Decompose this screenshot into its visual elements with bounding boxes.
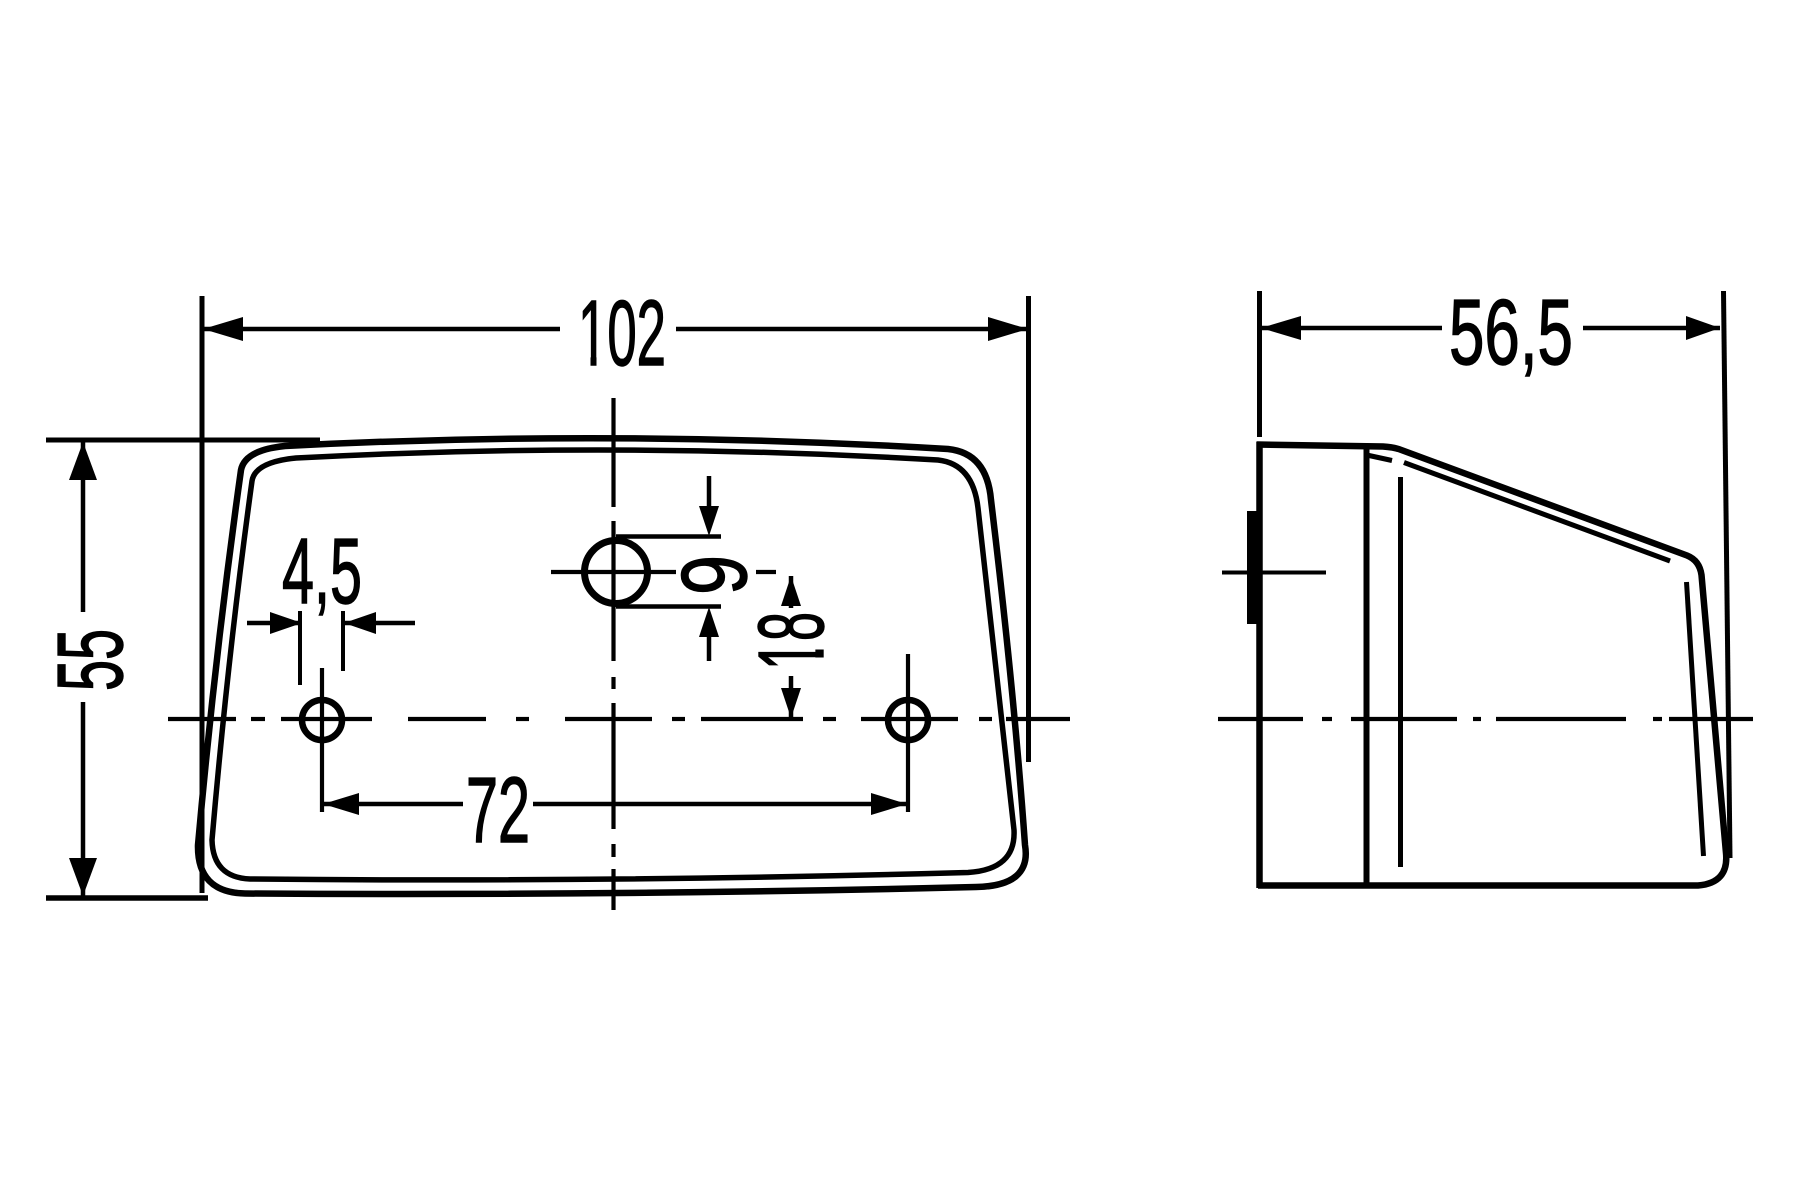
hole top center d9: [585, 541, 648, 604]
dim 4,5 line left: [247, 621, 300, 626]
dim 72 arrow left: [323, 793, 359, 815]
svg-text:9: 9: [662, 555, 766, 595]
side view hole centerline: [1222, 571, 1326, 575]
dim 56,5 arrow left: [1261, 316, 1301, 340]
dim 9 top line: [616, 534, 721, 539]
svg-text:55: 55: [38, 629, 142, 691]
side view inner right edge: [1687, 582, 1704, 856]
dim 4,5 ext line right: [341, 611, 345, 671]
dim 72 arrow right: [871, 793, 907, 815]
centerline vertical main: [611, 398, 615, 910]
side view inner slant short: [1369, 456, 1392, 461]
dim 102 ext line left: [200, 296, 205, 893]
side view front face: [1256, 442, 1263, 889]
centerline horizontal main: [168, 717, 1070, 721]
dim 55 ext line top: [46, 438, 320, 443]
svg-text:18: 18: [739, 612, 843, 670]
dim 102 arrow left: [203, 317, 243, 341]
dim 55 line: [81, 441, 86, 612]
side view outer contour: [1257, 445, 1726, 886]
dim 4,5 ext line left: [298, 611, 302, 685]
side view inner vertical: [1398, 477, 1403, 867]
crosshair left hole: [320, 668, 324, 812]
dim 9 bottom line: [616, 604, 721, 609]
centerline top hole horizontal: [551, 570, 676, 574]
dim 56,5 line: [1259, 326, 1442, 331]
dim 56,5 arrow right: [1686, 316, 1720, 340]
dim 18 arrow bottom: [789, 676, 794, 719]
crosshair right hole: [906, 654, 910, 812]
dim 4,5 line right: [344, 621, 415, 626]
dim 4,5 arrow left: [270, 612, 302, 634]
hole right d4.5: [888, 700, 928, 740]
dim 56,5 ext line right: [1724, 291, 1731, 858]
svg-text:102: 102: [578, 281, 666, 385]
dim 102 ext line right: [1026, 296, 1031, 762]
side view inner slant long: [1404, 463, 1670, 562]
front view inner contour: [212, 450, 1014, 880]
dim 72 line: [323, 802, 463, 807]
svg-text:4,5: 4,5: [282, 519, 362, 623]
dim 18 arrow top: [789, 576, 794, 608]
front view outer contour: [198, 438, 1026, 894]
dim 55 ext line bottom: [46, 895, 208, 901]
dim 4,5 arrow right: [344, 612, 376, 634]
dim 102 arrow right: [988, 317, 1028, 341]
side view main centerline: [1218, 717, 1753, 721]
dim 55 arrow top: [69, 442, 97, 480]
dim 9 arrow bottom: [707, 637, 712, 661]
side view tab: [1247, 511, 1259, 624]
dim 9 arrow top: [707, 476, 712, 510]
hole left d4.5: [302, 700, 342, 740]
svg-text:72: 72: [466, 758, 530, 862]
dim 55 arrow bottom: [69, 858, 97, 896]
side view lens edge: [1364, 445, 1370, 884]
dim 102 line: [202, 327, 560, 332]
svg-text:56,5: 56,5: [1449, 280, 1573, 384]
dim 56,5 ext line left: [1257, 291, 1262, 437]
